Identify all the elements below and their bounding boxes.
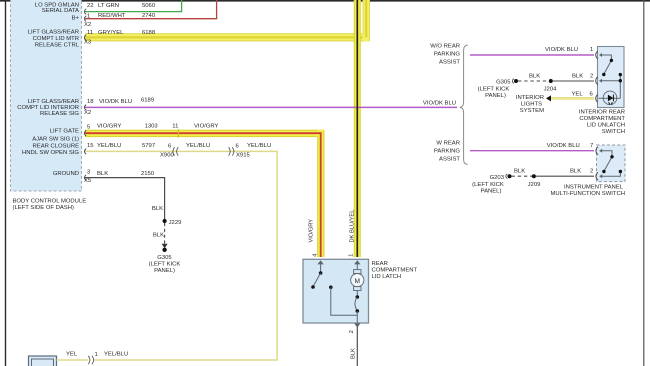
BCM pin numbers and X labels	[84, 3, 94, 184]
svg-text:INTERIOR REAR: INTERIOR REAR	[579, 109, 625, 115]
page frame top border	[0, 0, 650, 2]
wire VIO/DK BLU 6189 from BCM to brace	[85, 106, 457, 108]
svg-text:W REAR: W REAR	[436, 140, 460, 146]
svg-text:6: 6	[590, 92, 594, 98]
wire labels YEL/BLU row with X900 X915	[97, 143, 271, 158]
switch S2 internals	[599, 149, 620, 179]
svg-text:BLK: BLK	[529, 74, 540, 80]
svg-text:HNDL SW OPEN SIG: HNDL SW OPEN SIG	[22, 150, 79, 156]
svg-text:PANEL): PANEL)	[481, 188, 502, 194]
svg-text:VIO/GRY: VIO/GRY	[194, 123, 219, 129]
wire BLK from latch pin 2	[356, 327, 358, 366]
label BLK + pin 2 (upper switch)	[572, 74, 593, 80]
svg-text:PARKING: PARKING	[434, 51, 460, 57]
rear compartment lid latch M1 box	[303, 259, 369, 323]
wire VIO/DK BLU lower branch to IP switch pin 7	[470, 150, 594, 152]
switch S2 pin connector arcs	[596, 147, 598, 181]
page frame left border	[5, 0, 7, 366]
svg-text:VIO/DK BLU: VIO/DK BLU	[99, 99, 132, 105]
instrument panel multi-function switch S2 box	[597, 145, 626, 182]
latch pin 4 rotated label	[313, 254, 319, 257]
svg-text:GROUND: GROUND	[53, 171, 79, 177]
wire VIO/GRY 1303 highlighted band (horizontal + vertical down to latch)	[85, 129, 324, 257]
svg-text:W/O REAR: W/O REAR	[430, 43, 460, 49]
latch motor M	[351, 270, 364, 297]
switch S1 pin connector arcs	[596, 51, 598, 102]
switch S2 contact dots	[602, 155, 622, 173]
svg-text:VIO/GRY: VIO/GRY	[309, 219, 315, 243]
svg-text:BLK: BLK	[514, 168, 525, 174]
svg-text:BLK: BLK	[572, 74, 583, 80]
body control module U1 box	[11, 0, 82, 191]
svg-text:ASSIST: ASSIST	[439, 59, 460, 65]
svg-text:1: 1	[87, 13, 90, 19]
latch pin 2 rotated label	[349, 330, 355, 333]
svg-text:LT GRN: LT GRN	[98, 3, 119, 9]
label J229	[169, 220, 182, 226]
label G305 left kick panel (center)	[149, 255, 181, 274]
wire YEL/BLU 5797 (right, down, left to bottom connector)	[85, 151, 277, 360]
switch S1 contact dots	[602, 59, 622, 83]
svg-text:X3: X3	[84, 39, 92, 45]
label VIO/GRY rotated on vertical band	[309, 219, 315, 243]
svg-text:X900: X900	[160, 152, 174, 158]
BCM left labels	[17, 2, 79, 177]
wire VIO/GRY red core	[85, 133, 321, 257]
svg-text:(LEFT KICK: (LEFT KICK	[472, 182, 504, 188]
svg-text:2: 2	[349, 330, 355, 333]
svg-text:SERIAL DATA: SERIAL DATA	[42, 8, 79, 14]
svg-text:BLK: BLK	[97, 171, 108, 177]
svg-text:RED/WHT: RED/WHT	[98, 13, 126, 19]
svg-text:LID UNLATCH: LID UNLATCH	[587, 123, 625, 129]
wire BLK 2150 from BCM ground pin	[85, 178, 165, 219]
label W/O REAR PARKING ASSIST	[430, 43, 460, 65]
wire VIO/DK BLU upper branch to switch pin 1	[470, 54, 594, 56]
svg-text:6188: 6188	[142, 30, 156, 36]
ground G305 right (left kick panel)	[478, 79, 518, 100]
switch S2 caption	[551, 185, 626, 198]
svg-text:PARKING: PARKING	[434, 148, 460, 154]
svg-text:PANEL): PANEL)	[154, 268, 175, 274]
connector tick 11 on VIO/GRY	[177, 129, 179, 137]
svg-text:PANEL): PANEL)	[485, 93, 506, 99]
wire DK BLU/YEL highlighted band vertical to latch pin 1	[354, 0, 361, 257]
bottom-left component box	[29, 356, 57, 366]
label VIO/DK BLU + pin 1 (upper switch)	[545, 47, 593, 53]
arrow to interior lights system	[546, 95, 551, 101]
svg-text:B+: B+	[72, 16, 80, 22]
svg-text:2740: 2740	[142, 13, 156, 19]
wire YEL stub from bottom-left box	[57, 359, 89, 361]
svg-text:M: M	[355, 278, 361, 285]
wire DK BLU/YEL dark core	[356, 0, 358, 257]
svg-text:VIO/DK BLU: VIO/DK BLU	[545, 47, 578, 53]
svg-text:LIFT GATE: LIFT GATE	[50, 128, 79, 134]
svg-text:SYSTEM: SYSTEM	[520, 108, 544, 114]
svg-text:1: 1	[590, 47, 593, 53]
svg-text:6: 6	[236, 144, 240, 150]
label BLK above J229	[152, 206, 163, 212]
ground G305 dot (left kick panel, center)	[162, 248, 166, 252]
svg-text:5: 5	[87, 124, 91, 130]
ground arrowhead at G305	[162, 244, 168, 249]
svg-text:5060: 5060	[142, 3, 156, 9]
svg-text:X2: X2	[84, 22, 91, 28]
label YEL + pin 6	[572, 92, 594, 98]
wire BLK dashed G203 to J209	[512, 175, 533, 177]
latch pin 2 exit arrow	[354, 323, 360, 327]
svg-text:LIFT GLASS/REAR: LIFT GLASS/REAR	[28, 30, 79, 36]
svg-text:BLK: BLK	[351, 348, 357, 359]
svg-text:VIO/DK BLU: VIO/DK BLU	[423, 101, 456, 107]
svg-text:VIO/DK BLU: VIO/DK BLU	[547, 143, 580, 149]
connector X915 arcs	[229, 147, 234, 155]
wire labels BLK row	[97, 171, 155, 177]
latch pin 1 rotated label	[349, 254, 355, 257]
labels YEL, 1, YEL/BLU bottom	[66, 351, 128, 357]
BCM caption	[13, 199, 87, 211]
connector X900 arcs	[173, 147, 178, 155]
wire BLK J209 to IP switch pin 2	[536, 175, 594, 177]
wire BLK dashed J229 to G305	[164, 223, 166, 244]
label BLK over dashed segment	[529, 74, 540, 80]
svg-text:REAR CLOSURE: REAR CLOSURE	[33, 144, 80, 150]
wire LT GRN 5060	[85, 0, 182, 12]
svg-text:X2: X2	[84, 110, 91, 116]
svg-text:MULTI-FUNCTION SWITCH: MULTI-FUNCTION SWITCH	[551, 191, 626, 197]
wire BLK dashed G305 to J204	[518, 80, 549, 82]
svg-text:BLK: BLK	[570, 168, 581, 174]
svg-text:RELEASE CTRL: RELEASE CTRL	[35, 42, 80, 48]
svg-text:15: 15	[87, 143, 94, 149]
svg-text:4: 4	[313, 254, 319, 257]
latch actuator arc link	[355, 295, 359, 323]
svg-text:YEL/BLU: YEL/BLU	[247, 143, 271, 149]
latch pin 1 entry arrow	[354, 260, 360, 269]
wire RED/WHT 2740	[85, 0, 217, 19]
svg-text:BLK: BLK	[152, 206, 163, 212]
svg-text:YEL/BLU: YEL/BLU	[186, 143, 210, 149]
wire labels VIO/GRY row	[97, 123, 219, 129]
svg-text:J204: J204	[544, 86, 557, 92]
label W REAR PARKING ASSIST	[434, 140, 460, 162]
svg-text:2: 2	[590, 168, 593, 174]
wire BLK J204 to switch pin 2	[553, 80, 594, 82]
svg-text:5797: 5797	[142, 143, 155, 149]
connector arcs bottom (pin 1)	[88, 356, 93, 364]
svg-text:YEL: YEL	[572, 92, 584, 98]
svg-text:11: 11	[87, 30, 93, 36]
svg-text:18: 18	[87, 99, 94, 105]
label VIO/DK BLU + pin 7 (IP switch)	[547, 143, 594, 149]
svg-text:LID LATCH: LID LATCH	[372, 274, 402, 280]
svg-text:COMPARTMENT: COMPARTMENT	[372, 267, 418, 273]
svg-text:2: 2	[590, 74, 593, 80]
lamp in switch S1	[599, 91, 617, 105]
latch pin 4 entry arrow	[317, 260, 323, 273]
svg-text:G305: G305	[496, 80, 511, 86]
svg-text:REAR: REAR	[372, 261, 388, 267]
svg-text:6: 6	[168, 144, 172, 150]
label DK BLU/YEL rotated on vertical band	[350, 210, 356, 243]
svg-text:YEL: YEL	[66, 351, 78, 357]
latch caption	[372, 261, 418, 280]
interior rear compartment lid unlatch switch S1 box	[598, 47, 625, 108]
svg-text:ASSIST: ASSIST	[439, 156, 460, 162]
brace split VIO/DK BLU	[460, 45, 468, 164]
svg-text:22: 22	[87, 3, 94, 9]
wire GRY/YEL 6188 highlighted band (horizontal + vertical up)	[85, 0, 370, 41]
label BLK over dashed segment (G203)	[514, 168, 525, 174]
svg-text:X5: X5	[84, 178, 92, 184]
svg-text:(LEFT SIDE OF DASH): (LEFT SIDE OF DASH)	[13, 205, 74, 211]
wire name labels row 1-3	[98, 3, 156, 36]
svg-text:(LEFT KICK: (LEFT KICK	[149, 262, 181, 268]
svg-text:1: 1	[95, 352, 98, 358]
svg-text:3: 3	[87, 169, 91, 175]
svg-text:GRY/YEL: GRY/YEL	[98, 30, 124, 36]
splice J209	[528, 174, 541, 188]
page frame right border	[643, 0, 645, 366]
svg-text:SWITCH: SWITCH	[602, 129, 625, 135]
svg-text:G305: G305	[157, 255, 172, 261]
svg-text:YEL/BLU: YEL/BLU	[104, 351, 128, 357]
switch S1 caption	[579, 109, 626, 135]
ground G203 (left kick panel)	[472, 174, 511, 195]
svg-text:G203: G203	[490, 175, 505, 181]
splice J229	[163, 219, 167, 223]
label INTERIOR LIGHTS SYSTEM	[516, 95, 544, 114]
svg-text:J229: J229	[169, 220, 182, 226]
splice J204	[544, 79, 557, 92]
svg-text:J209: J209	[528, 182, 541, 188]
svg-text:INSTRUMENT PANEL: INSTRUMENT PANEL	[564, 185, 624, 191]
wire labels VIO/DK BLU row	[99, 97, 456, 106]
svg-text:COMPT LID MTR: COMPT LID MTR	[33, 36, 79, 42]
switch S1 internals	[599, 53, 620, 98]
svg-text:RELEASE SIG: RELEASE SIG	[40, 111, 79, 117]
svg-text:AJAR SW SIG (1): AJAR SW SIG (1)	[32, 136, 79, 142]
svg-text:COMPARTMENT: COMPARTMENT	[579, 116, 625, 122]
svg-text:DK BLU/YEL: DK BLU/YEL	[350, 210, 356, 243]
svg-text:7: 7	[590, 143, 593, 149]
svg-text:1303: 1303	[145, 123, 159, 129]
svg-text:6189: 6189	[141, 97, 154, 103]
svg-text:(LEFT KICK: (LEFT KICK	[478, 87, 510, 93]
svg-text:1: 1	[349, 254, 355, 257]
svg-text:2150: 2150	[141, 171, 155, 177]
svg-text:LIGHTS: LIGHTS	[521, 102, 542, 108]
svg-text:BLK: BLK	[153, 232, 164, 238]
svg-text:YEL/BLU: YEL/BLU	[97, 143, 121, 149]
svg-text:BODY CONTROL MODULE: BODY CONTROL MODULE	[13, 199, 87, 205]
wire YEL from switch pin 6	[551, 97, 594, 100]
latch switch blade and dots	[311, 271, 357, 315]
label BLK below J229	[153, 232, 164, 238]
label BLK rotated on latch ground wire	[351, 348, 357, 359]
svg-text:VIO/GRY: VIO/GRY	[97, 123, 122, 129]
BCM pin connector arcs	[84, 9, 86, 181]
label BLK + pin 2 (IP switch)	[570, 168, 593, 174]
svg-text:INTERIOR: INTERIOR	[516, 95, 544, 101]
svg-text:11: 11	[172, 123, 178, 129]
svg-text:X915: X915	[236, 152, 250, 158]
